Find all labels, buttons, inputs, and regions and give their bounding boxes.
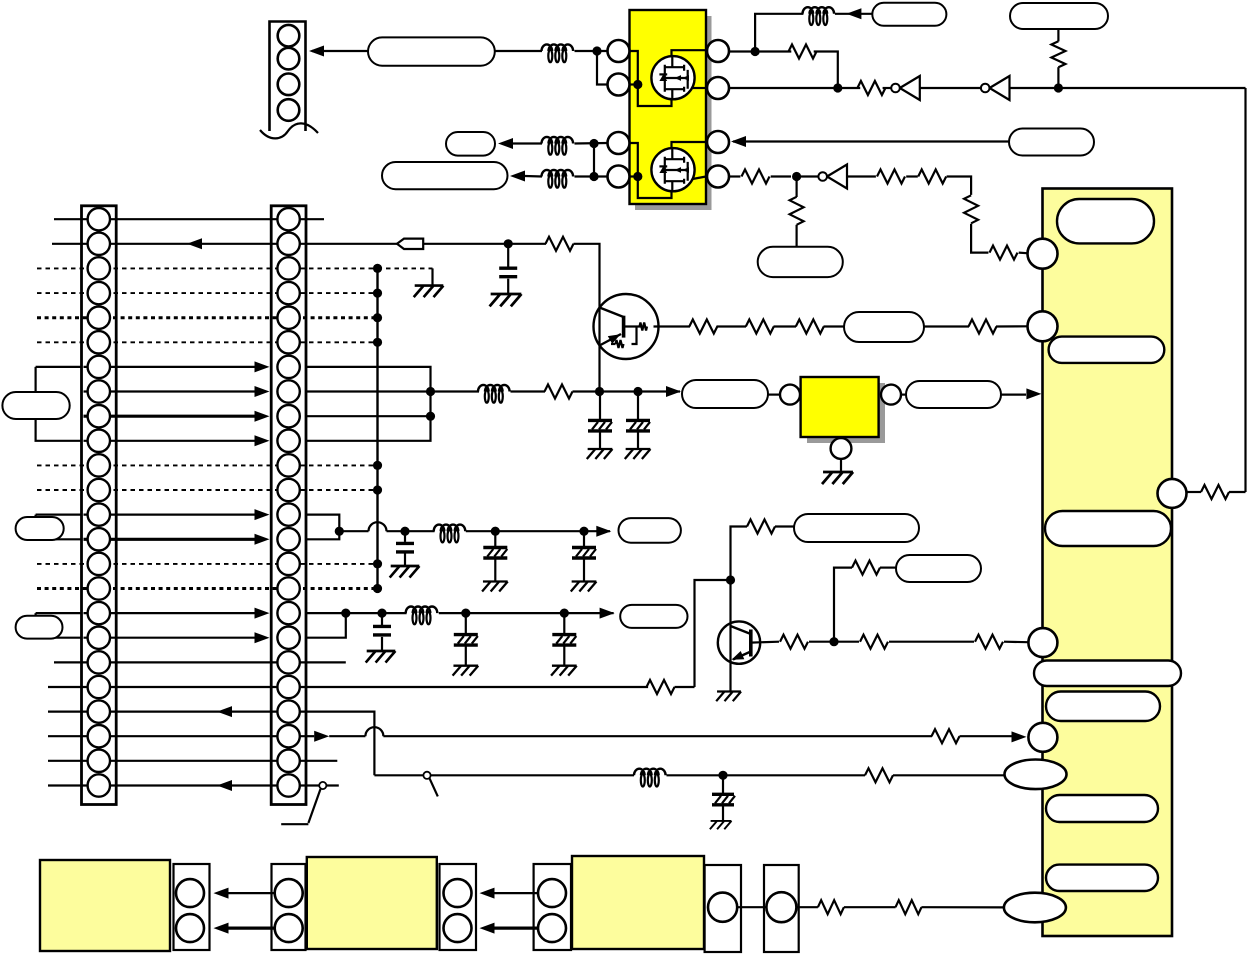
wire: [921, 906, 1005, 908]
connector J1 pin 3: [278, 74, 300, 96]
junction: [341, 609, 350, 618]
block label stadium S7: [1046, 865, 1158, 891]
node junction (Q4 base net): [829, 637, 838, 646]
ground: [366, 651, 396, 663]
U1 internal drain wire (top): [672, 50, 707, 56]
connector J8: [705, 865, 741, 952]
dashed bus wire row15: [37, 563, 378, 565]
resistor R7: [918, 170, 946, 184]
resistor R25: [818, 900, 844, 914]
inductor FL3: [542, 170, 574, 188]
wire: [423, 243, 546, 245]
node junction: [589, 172, 598, 181]
net label (stadium) L1: [368, 37, 495, 65]
wire row14 (bold) with arrow into J3: [84, 534, 270, 545]
inductor FL8: [634, 769, 666, 787]
inverter U2C: [818, 165, 847, 189]
bus junction row6: [373, 338, 382, 347]
wire row22: [48, 735, 306, 737]
block label stadium S3: [1045, 511, 1171, 546]
wire: [795, 177, 797, 248]
connector J7 pin2: [538, 914, 566, 942]
connector J2 pins 1-24: [88, 208, 110, 797]
U1 pin R4: [707, 166, 729, 188]
bracket rows7-10 right: [306, 367, 431, 441]
wire to ellipse pin: [893, 774, 1006, 776]
U3 pin bottom: [831, 438, 852, 459]
Q4 emitter diagonal with arrow: [732, 651, 751, 660]
dashed bus wire row16: [37, 587, 378, 590]
block pin P2: [1028, 311, 1058, 341]
connector J1 pin 2: [278, 48, 300, 70]
resistor R16: [746, 320, 774, 334]
Q4 base bar: [749, 630, 753, 657]
wire: [1229, 491, 1246, 493]
feedthrough cap C8: [454, 613, 478, 666]
node junction: [491, 527, 500, 536]
arrow into L2: [498, 138, 513, 149]
wire: [824, 325, 845, 327]
U1 internal source wire (top right): [693, 87, 707, 89]
wire row10 with arrow into J3: [84, 435, 270, 446]
resistor R15: [689, 320, 717, 334]
wire: [906, 175, 918, 177]
arrow into L3: [510, 171, 525, 182]
resistor R9: [990, 246, 1018, 260]
ground: [710, 821, 732, 829]
module M1 (pale yellow): [40, 860, 170, 951]
resistor R24: [975, 635, 1003, 649]
wire to U1 pin 2: [597, 51, 608, 85]
resistor R3: [1051, 41, 1065, 67]
net-tie / ferrite NT1 (pointed box): [397, 239, 423, 249]
node junction: [751, 47, 760, 56]
net label (stadium) L16: [794, 514, 919, 542]
Q4 vertical through wire: [729, 623, 731, 692]
U1 pin L1: [608, 40, 630, 62]
node junction (Q3 emitter): [595, 387, 604, 396]
wire row17 with arrow into J3: [84, 608, 270, 619]
wire: [1019, 252, 1027, 255]
net label (stadium) L9: [682, 380, 768, 408]
ground: [587, 449, 613, 459]
wire row24 stub with switch SW1: [281, 782, 339, 824]
connector J9: [764, 865, 799, 952]
U1 pin R3: [707, 131, 729, 153]
wire: [675, 686, 695, 688]
connector J6 pin2: [444, 914, 472, 942]
block pin P6 (ellipse): [1005, 760, 1067, 790]
ground (Q4 emitter): [716, 692, 741, 702]
capacitor C1: [499, 268, 517, 277]
wire U1 R4 to resistor: [730, 175, 741, 177]
wire: [797, 175, 819, 177]
wire with left arrow (pair B bottom, bold): [480, 923, 553, 934]
resistor R4: [1201, 485, 1229, 499]
wire to corner: [947, 177, 972, 195]
wire row24 with left arrow: [48, 780, 306, 791]
node junction: [792, 172, 801, 181]
U1 pin L3: [608, 132, 630, 154]
Q3 internal base-emitter resistor: [611, 327, 637, 349]
U1 internal drain wire (bottom): [672, 142, 707, 148]
net label (stadium) L14: [844, 312, 924, 342]
wire row19: [54, 661, 346, 663]
ground: [571, 582, 597, 592]
left bracket rows 7-10: [36, 367, 82, 441]
bracket row18 right: [306, 613, 346, 638]
resistor R22: [780, 635, 808, 649]
wire row9 with arrow into J3: [84, 411, 270, 422]
wire: [796, 906, 818, 908]
Q3 base wire: [624, 325, 690, 327]
arrow into L13: [600, 608, 615, 619]
signal bus vertical: [376, 268, 378, 588]
wire: [511, 390, 546, 392]
dashed bus wire row6: [37, 341, 378, 343]
Q4 base wire: [751, 641, 779, 644]
bus junction row16: [373, 584, 382, 593]
resistor R11: [546, 237, 574, 251]
net label (stadium) L5 (top right): [1010, 3, 1108, 29]
block label stadium S6: [1046, 795, 1158, 822]
dashed bus wire row5: [37, 316, 378, 319]
wire row20 (long net): [48, 686, 648, 688]
resistor R19: [747, 520, 775, 534]
dashed bus wire row4: [37, 292, 378, 294]
wire row21 right, corner down: [306, 712, 374, 776]
wire row9 to bracket: [306, 415, 431, 417]
ground: [490, 294, 522, 306]
wire: [575, 175, 608, 177]
wire: [840, 459, 842, 472]
wire: [573, 390, 681, 392]
wire: [381, 613, 383, 651]
wire: [889, 641, 974, 643]
connector J4 pin1: [176, 879, 204, 907]
U3 pin right: [881, 385, 901, 405]
U1 pin L2: [608, 74, 630, 96]
power MOSFET array U1 (yellow block): [630, 10, 707, 204]
connector J5: [272, 864, 306, 950]
net label (stadium) L12: [16, 616, 63, 639]
net label (stadium) L15: [906, 381, 1001, 408]
wire corner to Q4 node: [731, 527, 795, 581]
wire to right edge: [1010, 87, 1246, 89]
inverter U2A: [891, 76, 920, 100]
Q3 collector/emitter vertical wire: [598, 295, 600, 392]
wire with hop over bus: [339, 522, 434, 531]
wire cap to gnd: [507, 244, 509, 293]
resistor R20: [647, 680, 675, 694]
net label (stadium) L8: [2, 392, 69, 419]
wire with arrow into block pin: [960, 731, 1027, 742]
feedthrough cap C5: [483, 531, 507, 581]
wire: [771, 175, 791, 177]
Q3 emitter diagonal with arrow: [600, 334, 622, 346]
resistor R14: [865, 768, 893, 782]
wire: [774, 325, 797, 327]
block pin P3 (right edge): [1158, 479, 1187, 508]
ground: [625, 449, 651, 459]
resistor R6: [877, 170, 905, 184]
arrow into L9: [666, 386, 681, 397]
ground: [414, 286, 444, 298]
node junction: [1054, 83, 1063, 92]
feedthrough cap C3: [626, 392, 650, 450]
net label (stadium) L10: [16, 517, 64, 540]
wire: [1057, 29, 1059, 41]
U1 internal junction: [633, 80, 642, 89]
U1 pin R1: [707, 40, 729, 62]
block pin P4: [1028, 628, 1057, 657]
Q3 base bar: [622, 316, 626, 338]
wire: [466, 530, 610, 532]
resistor R13: [932, 729, 960, 743]
connector J1 pin 1: [278, 25, 300, 47]
module M3 (pale yellow): [572, 856, 704, 949]
wire: [575, 50, 608, 52]
block pin P1: [1028, 239, 1058, 269]
wire: [920, 87, 981, 89]
Q4 collector wire: [729, 580, 731, 623]
wire with arrow: [835, 8, 872, 19]
wire with left arrow (pair A bottom, bold): [214, 923, 289, 934]
node junction: [504, 239, 513, 248]
node junction: [377, 609, 386, 618]
connector J5 pin2: [275, 914, 303, 942]
bus junction row15: [373, 559, 382, 568]
dashed bus wire row12: [37, 489, 378, 491]
ground: [482, 582, 508, 592]
dashed bus wire row11: [37, 464, 378, 466]
inductor FL7: [406, 607, 438, 625]
wire row18 with arrow into J3: [84, 632, 270, 643]
resistor R12: [545, 385, 573, 399]
tie wire: [593, 144, 595, 177]
net label (stadium) L3: [382, 162, 508, 189]
node junction: [579, 527, 588, 536]
wire: [924, 325, 969, 327]
node junction: [718, 771, 727, 780]
wire row1 (net): [54, 218, 324, 220]
block pin P7 (ellipse): [1004, 893, 1066, 923]
wire corner down: [834, 568, 852, 642]
main module block (pale yellow): [1043, 189, 1173, 937]
wire left down to row20: [695, 580, 731, 687]
connector J5 pin1: [275, 879, 303, 907]
wire row2 right to net-tie: [306, 243, 397, 245]
node junction: [461, 609, 470, 618]
inductor FL1: [542, 44, 574, 62]
wire to block pin: [971, 224, 988, 253]
U1 pin L4: [608, 166, 630, 188]
resistor R1: [789, 45, 817, 59]
feedthrough cap C2: [588, 392, 612, 450]
Q4 collector diagonal: [731, 626, 751, 634]
node junction: [400, 527, 409, 536]
wire row8 with arrow into J3: [84, 386, 270, 397]
wire row2 with left arrow: [52, 238, 306, 249]
block label stadium S5: [1046, 692, 1160, 722]
bracket junction row9: [426, 412, 435, 421]
feedthrough cap C6: [572, 531, 596, 581]
wire: [404, 531, 406, 566]
wire: [996, 325, 1027, 327]
U3 pin left: [780, 385, 800, 405]
transistor Q4 circle: [718, 621, 760, 663]
wire: [1188, 491, 1202, 493]
wire: [847, 175, 876, 177]
node junction: [560, 609, 569, 618]
wire row7 with arrow into J3: [84, 361, 270, 372]
net label (stadium) L4: [872, 3, 946, 26]
MOSFET Q2 (P-ch, in U1): [651, 148, 694, 191]
arrow into L11: [596, 526, 611, 537]
wire: [1057, 67, 1059, 88]
block label stadium S1: [1057, 199, 1154, 243]
resistor R17: [796, 320, 824, 334]
ground: [390, 566, 420, 578]
U1 internal wire pin3/4 tie (bottom): [630, 143, 672, 198]
IC U3 (yellow square): [801, 377, 879, 437]
inductor FL2: [542, 137, 574, 155]
wire: [525, 175, 542, 178]
left bracket rows17-18: [36, 613, 82, 638]
net label (stadium) L11: [619, 518, 681, 543]
Q3 collector diagonal: [600, 308, 624, 318]
arrow into U1 R3: [731, 136, 746, 147]
resistor R21: [852, 561, 880, 575]
wire: [495, 50, 542, 52]
wire to Q3 collector: [574, 244, 600, 295]
bus junction row5: [373, 313, 382, 322]
wire: [901, 394, 906, 396]
resistor R18: [969, 320, 997, 334]
capacitor C7: [373, 626, 391, 635]
resistor R26: [896, 900, 922, 914]
connector J1 pin 4: [278, 99, 300, 121]
U1 internal wire pin1/2 tie (top): [630, 51, 672, 106]
wire row13 with arrow into J3: [84, 509, 270, 520]
inductor FL5: [478, 385, 510, 403]
node junction: [589, 139, 598, 148]
connector J6 pin1: [444, 879, 472, 907]
wire row22 right with arrow and hop: [306, 727, 932, 742]
module M2 (pale yellow): [307, 857, 437, 949]
inverter U2B: [981, 76, 1010, 100]
inductor FL4: [803, 7, 835, 25]
wire up to inductor: [755, 14, 803, 52]
wire: [513, 142, 542, 144]
node junction: [833, 83, 842, 92]
wire to corner: [814, 52, 838, 89]
junction: [335, 527, 344, 536]
connector J3 pins 1-24: [277, 208, 299, 797]
resistor R8: [964, 195, 978, 223]
wire: [844, 906, 896, 908]
connector J4 pin2: [176, 914, 204, 942]
resistor R5: [742, 170, 770, 184]
U1 pin R2: [707, 77, 729, 99]
wire row8 to bracket: [306, 390, 431, 392]
wire: [439, 612, 614, 614]
wire net label to J1 with arrow: [309, 46, 368, 57]
wire: [717, 325, 747, 327]
MOSFET Q1 (P-ch, in U1): [651, 56, 694, 99]
wire: [809, 641, 859, 643]
left bracket rows13-14: [36, 515, 82, 540]
block label stadium S4 (wide): [1034, 661, 1181, 687]
wire: [667, 774, 866, 776]
U3 shadow: [807, 383, 885, 443]
connector J1 (4-pin header, broken off): [260, 22, 318, 139]
bus junction row12: [373, 485, 382, 494]
bus junction row11: [373, 461, 382, 470]
wire with switch SW2: [374, 772, 634, 797]
wire: [306, 612, 407, 614]
connector J7 pin1: [538, 879, 566, 907]
wire row21 with left arrow: [48, 706, 306, 717]
ground: [551, 666, 577, 676]
wire U1 R3 long line: [733, 140, 1009, 142]
Q3 internal base resistor: [640, 323, 648, 331]
bus junction row4: [373, 289, 382, 298]
wire: [431, 390, 480, 392]
U1 internal source wire (bottom right): [693, 177, 707, 180]
net label (stadium) L7: [758, 247, 843, 277]
wire U1 R2 to inverter: [730, 87, 861, 89]
inductor FL6: [434, 525, 466, 543]
connector J8 pin1: [708, 893, 737, 922]
wire: [737, 906, 767, 908]
U1 block shadow: [635, 16, 712, 210]
wire: [768, 394, 780, 396]
dashed stub row3 to ground: [378, 267, 433, 269]
wire: [883, 87, 891, 89]
transistor Q3 circle: [594, 294, 659, 359]
net label (stadium) L2: [446, 132, 495, 156]
wire with arrow into block: [1001, 388, 1041, 399]
right-edge vertical wire: [1244, 88, 1246, 492]
connector J2 (left header): [82, 206, 117, 805]
wire with left arrow (pair B top): [480, 888, 553, 899]
wire U1 R1 to node: [730, 50, 792, 52]
resistor R23: [860, 635, 888, 649]
connector J6: [440, 864, 477, 950]
block pin P5: [1028, 723, 1057, 752]
U1 internal junction 2: [633, 172, 642, 181]
wire row23: [48, 760, 337, 762]
wire: [575, 142, 608, 145]
feedthrough cap C10: [712, 775, 735, 821]
wire with left arrow (pair A top): [214, 888, 289, 899]
bracket rows13-14 right: [306, 515, 339, 540]
feedthrough cap C9: [552, 613, 576, 666]
dashed bus wire row3: [37, 267, 378, 269]
ground: [822, 472, 853, 484]
net label (stadium) L17: [896, 555, 981, 582]
connector J3 (right header): [271, 206, 306, 805]
bus junction row3: [373, 264, 382, 273]
wire: [431, 268, 433, 285]
capacitor C4: [396, 543, 414, 552]
net label (stadium) L13: [620, 605, 687, 628]
bracket junction row8: [426, 387, 435, 396]
connector J4: [174, 864, 210, 950]
wire: [1004, 641, 1028, 644]
node junction: [592, 46, 601, 55]
